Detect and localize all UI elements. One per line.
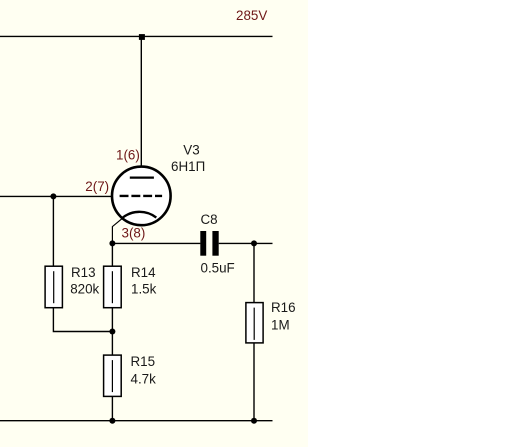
wire R13 top lead [52, 196, 54, 266]
svg-text:R15: R15 [131, 354, 156, 369]
junction R15 / bottom rail [109, 418, 115, 424]
V3 cathode lead [112, 219, 121, 244]
svg-text:V3: V3 [183, 142, 199, 157]
svg-text:C8: C8 [201, 212, 218, 227]
wire C8 to R16 branch [219, 242, 273, 244]
junction cathode node [109, 240, 115, 246]
tube V3 envelope [112, 167, 171, 226]
svg-text:6Н1П: 6Н1П [171, 159, 205, 174]
junction C8 / R16 node [251, 240, 257, 246]
wire grid input [0, 195, 120, 197]
svg-text:R14: R14 [131, 265, 156, 280]
svg-text:3(8): 3(8) [122, 226, 146, 241]
svg-text:1M: 1M [271, 318, 290, 333]
svg-text:R16: R16 [271, 300, 296, 315]
resistor R16 [246, 303, 263, 343]
wire R14 bottom lead [111, 308, 113, 332]
wire cathode node to C8 [112, 242, 200, 244]
svg-text:4.7k: 4.7k [131, 372, 157, 387]
wire R15 bottom lead [111, 396, 113, 420]
junction R13/R14/R15 node [109, 329, 115, 335]
capacitor C8 [200, 231, 218, 256]
V3 plate (anode) bar [130, 176, 154, 178]
junction grid wire / R13 branch [50, 193, 56, 199]
resistor R13 [45, 266, 62, 308]
wire R15 top lead [111, 332, 113, 356]
svg-text:820k: 820k [70, 282, 99, 297]
wire R16 top lead [253, 243, 255, 302]
net 285V supply rail [0, 35, 273, 37]
V3 grid dashed line [120, 195, 163, 197]
resistor R15 [104, 355, 122, 396]
svg-text:285V: 285V [236, 8, 267, 23]
wire anode lead from rail to V3 plate [140, 37, 142, 178]
net ground/common bottom rail [0, 420, 273, 422]
resistor R14 [104, 266, 122, 308]
wire R13 bottom lead to node [53, 308, 112, 332]
V3 cathode arc [121, 212, 156, 219]
svg-text:2(7): 2(7) [85, 179, 109, 194]
junction R16 / bottom rail [251, 418, 257, 424]
svg-text:0.5uF: 0.5uF [201, 260, 235, 275]
wire R14 top lead [111, 243, 113, 266]
wire R16 bottom lead [253, 343, 255, 421]
svg-text:1.5k: 1.5k [131, 282, 157, 297]
svg-text:1(6): 1(6) [116, 148, 140, 163]
svg-text:R13: R13 [71, 265, 96, 280]
junction rail/anode lead [139, 34, 145, 40]
